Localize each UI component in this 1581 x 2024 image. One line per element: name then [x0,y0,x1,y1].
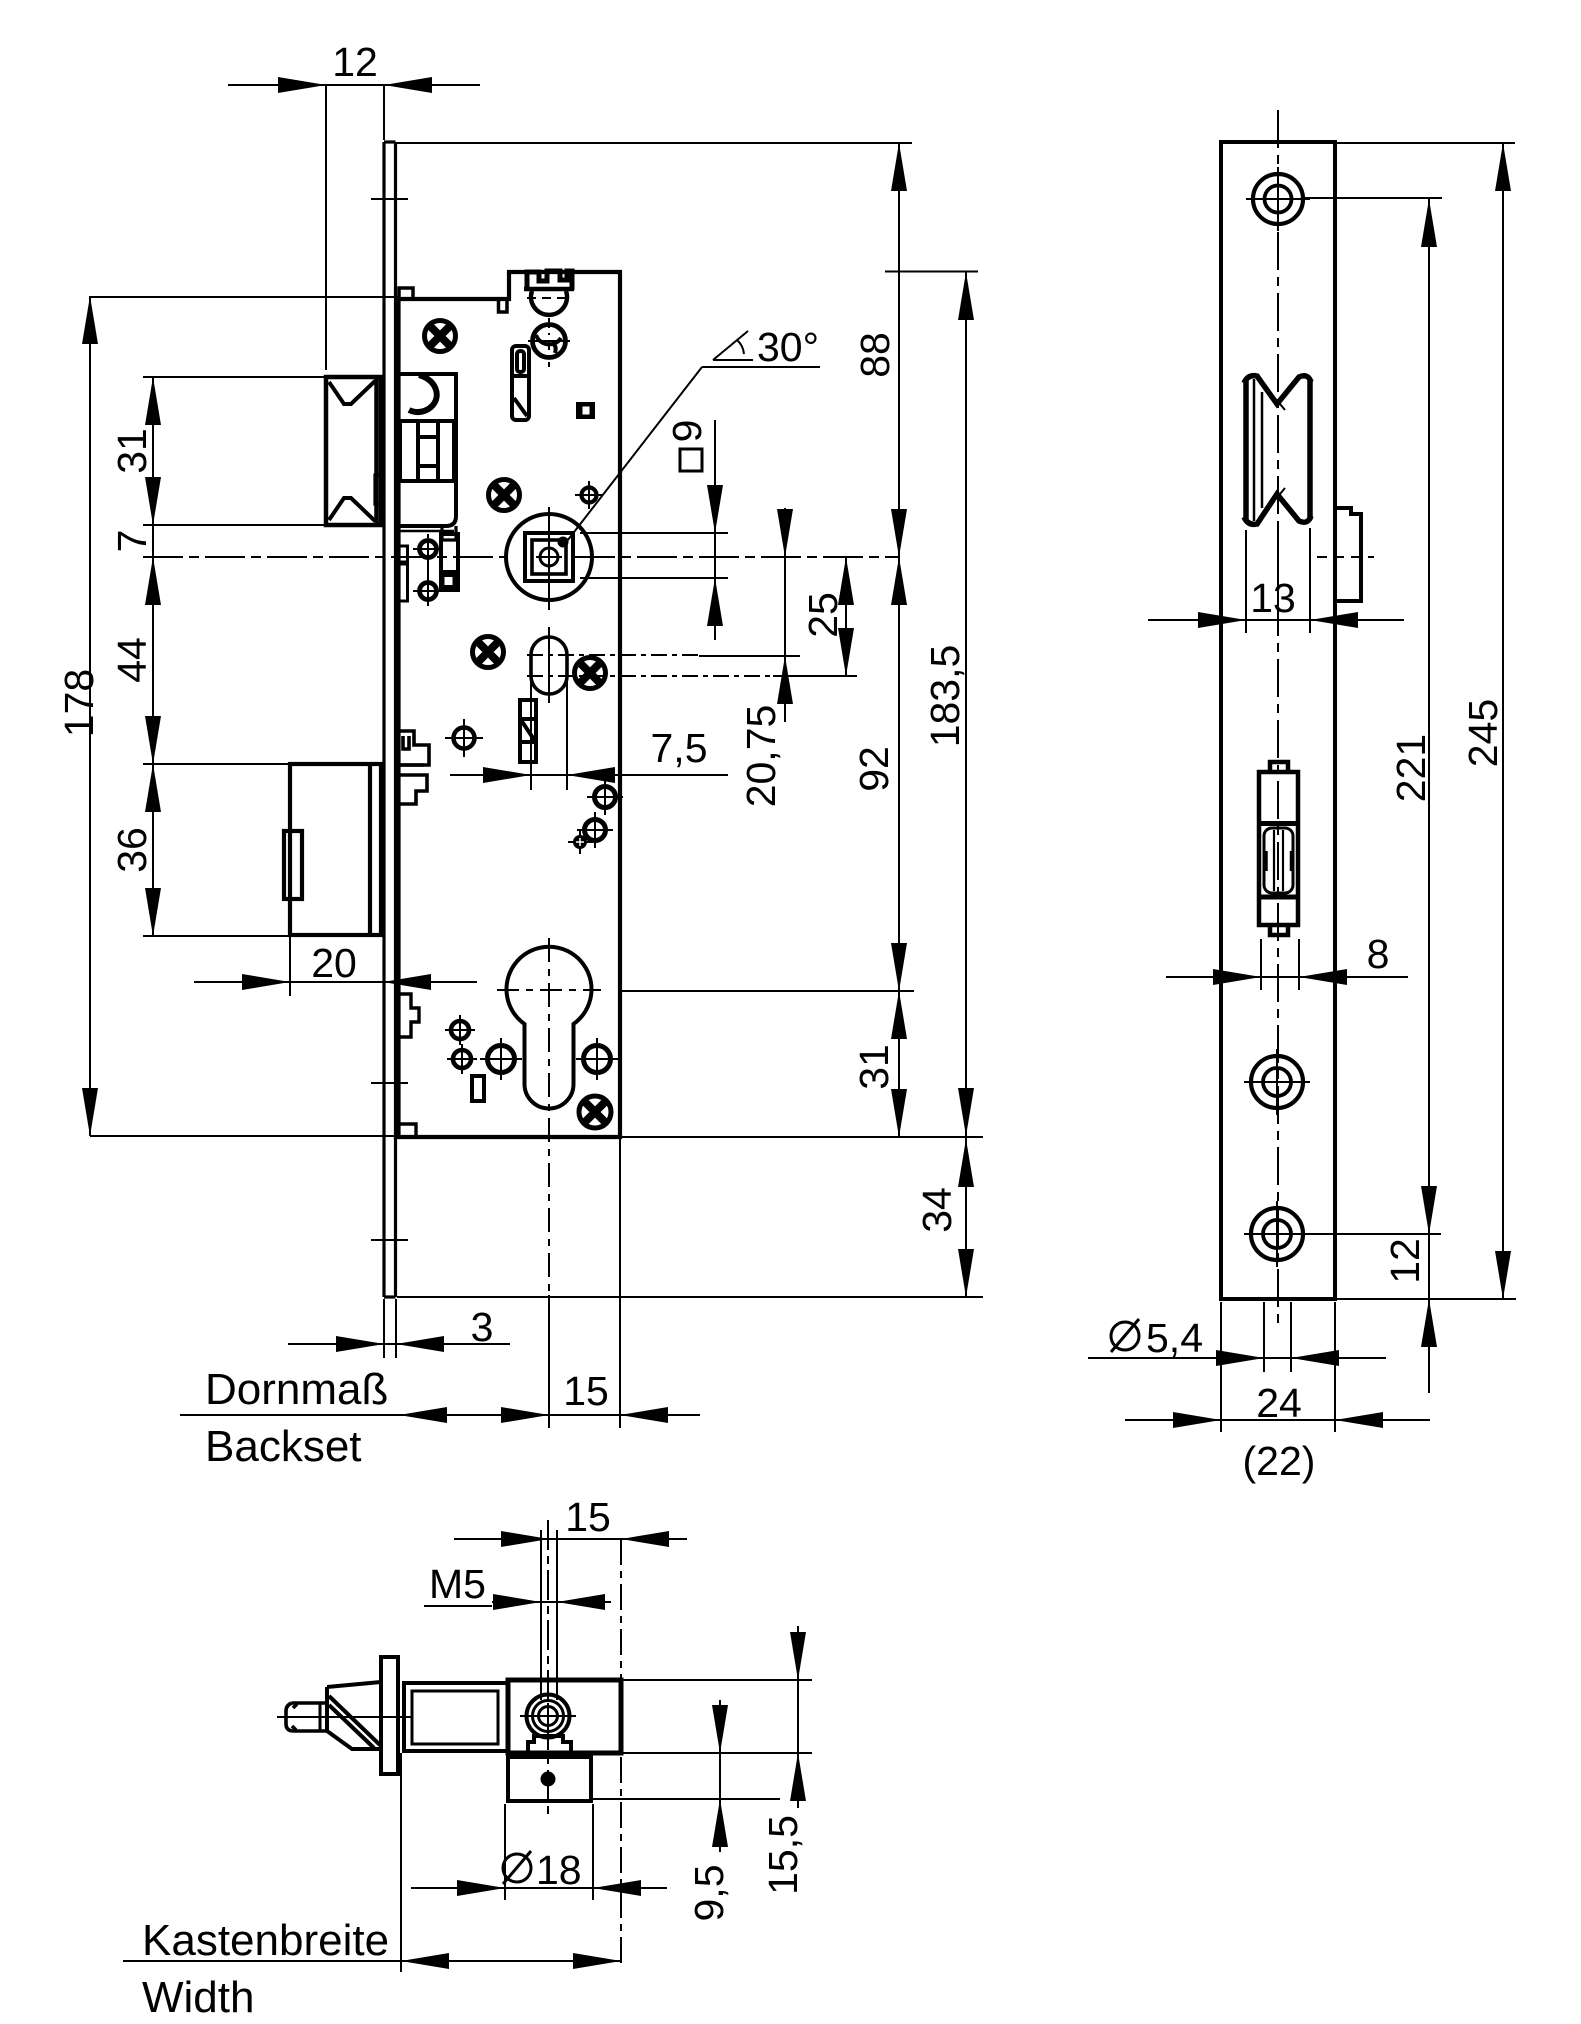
BOTTOM VIEW TEXTS [429,1494,806,1922]
dim 25 [845,557,847,676]
svg-text:34: 34 [914,1187,960,1233]
right chain x=966 : 183,5 / 34 [965,272,967,1297]
svg-text:Kastenbreite: Kastenbreite [142,1916,389,1965]
case plan follower boss [508,1680,621,1753]
latch opening V-bobbin [1244,376,1311,525]
svg-text:24: 24 [1256,1380,1302,1426]
svg-text:M5: M5 [429,1561,486,1607]
latch plan wedge [320,1682,381,1749]
svg-text:12: 12 [1382,1238,1428,1284]
angle symbol [713,331,753,360]
right side extension lines [397,142,912,144]
top screw hole [1246,167,1310,231]
bracket below screw [528,1736,571,1752]
dim 15,5 [797,1626,799,1808]
svg-text:30°: 30° [757,324,819,370]
centerline dash-dot [1277,110,1279,1325]
slider slot below oval [520,700,536,762]
latch slider H-block [400,421,454,481]
svg-text:31: 31 [109,428,155,474]
faceplate flange plan [381,1657,398,1774]
deadbolt side view [284,764,381,935]
svg-text:(22): (22) [1243,1438,1316,1484]
svg-text:5,4: 5,4 [1146,1315,1203,1361]
svg-text:Dornmaß: Dornmaß [205,1365,388,1414]
svg-text:12: 12 [332,39,378,85]
svg-text:13: 13 [1250,575,1296,621]
follower square inner [532,540,566,574]
svg-text:178: 178 [56,669,102,737]
diameter symbol for 5,4 [1111,1319,1139,1352]
body top U-notch [499,299,508,312]
svg-text:8: 8 [1367,931,1390,977]
svg-text:20,75: 20,75 [738,705,784,808]
small rect near cylinder [472,1076,484,1101]
svg-text:9: 9 [664,420,710,443]
oval center dashes [527,654,699,656]
dim 18 [411,1887,667,1889]
body bottom small tab [399,1124,417,1137]
svg-text:20: 20 [311,940,357,986]
svg-text:7: 7 [109,530,155,553]
circle with hook below crown [533,325,566,358]
svg-text:3: 3 [471,1304,494,1350]
svg-text:36: 36 [109,827,155,873]
screw X symbols [425,321,612,1129]
right chain x=899 : 88 / 92 / 31 [898,143,900,1137]
small block left of follower [441,534,458,590]
svg-text:Width: Width [142,1973,254,2022]
latch spring hook [409,375,437,412]
aux latch protrusion right of plate [1336,508,1361,601]
dim 7,5 [450,774,728,776]
leader dot [558,537,569,548]
dia 5,4 [1088,1357,1386,1359]
crown screw top [527,271,572,290]
svg-text:7,5: 7,5 [651,725,708,771]
svg-text:221: 221 [1388,734,1434,802]
target crosshair marks [413,481,623,1080]
faceplate side view [384,142,396,1297]
dim 9,5 [719,1700,721,1852]
30 deg leader [702,366,820,368]
Kastenbreite dim [123,1960,621,1962]
latch small tab on face [375,475,383,504]
diameter symbol for 18 [503,1851,531,1884]
plan centerline [277,1716,412,1718]
follower centerline [143,556,505,558]
dim 178 left [89,296,91,1136]
cylinder centerlines [497,989,601,991]
latch plan tip [286,1703,327,1731]
svg-text:44: 44 [109,637,155,683]
dim 15 [454,1538,687,1540]
M5 screw plan [520,1695,576,1738]
dim 245 at x=1503 [1502,143,1504,1299]
dims 31/7/44/36 left chain at x=153 [152,377,154,936]
latch tail box [399,374,457,526]
follower center hole [540,548,558,566]
mid screw hole [1244,1049,1310,1115]
follower circle [506,514,592,600]
svg-text:245: 245 [1460,699,1506,767]
svg-text:25: 25 [800,592,846,638]
svg-text:92: 92 [851,746,897,792]
cylinder hole europrofile [507,947,592,1109]
dim 8 [1166,976,1408,978]
faceplate front outline [1221,142,1335,1299]
lock body outline [399,272,621,1137]
dim 221 at x=1429 [1428,199,1430,1234]
svg-text:183,5: 183,5 [922,645,968,748]
small step below latch tail [442,526,456,540]
svg-text:18: 18 [536,1847,582,1893]
svg-text:9,5: 9,5 [686,1865,732,1922]
latch chamfer V bottom [329,498,375,521]
small square window [576,402,595,419]
svg-text:Backset: Backset [205,1422,362,1471]
RIGHT VIEW TEXTS [1146,575,1506,1484]
svg-text:15,5: 15,5 [760,1815,806,1895]
small tabs inside faceplate [399,546,408,562]
square symbol for 9 [680,449,702,471]
bottom screw hole [1244,1201,1310,1267]
dim 24 [1125,1419,1430,1421]
svg-text:31: 31 [851,1044,897,1090]
oval hole [531,637,567,694]
dim 3 faceplate [288,1343,510,1345]
dim 12 at x=1429 below [1428,1234,1430,1393]
dim 20 deadbolt [194,981,477,983]
dim 20,75 [784,508,786,722]
deadbolt guide staircase [400,731,429,804]
latch bolt side view [326,377,381,525]
Dornmass/Backset + 15 dim line [180,1414,700,1416]
svg-text:15: 15 [565,1494,611,1540]
M5 dim [492,1601,611,1603]
case plan left part [404,1683,508,1751]
cylinder boss plan [508,1757,591,1801]
dim 13 [1148,619,1404,621]
svg-text:88: 88 [852,332,898,378]
vertical slot with pin top [512,346,529,420]
body top tab [399,288,413,299]
dim 12 top [228,84,480,86]
square 9 dim [714,420,716,640]
deadbolt roller assembly [1259,762,1298,935]
body bottom-left step [399,994,420,1037]
svg-text:15: 15 [563,1368,609,1414]
follower square outer [525,533,573,581]
latch chamfer V top [329,381,375,404]
faceplate break ticks [371,199,408,1240]
